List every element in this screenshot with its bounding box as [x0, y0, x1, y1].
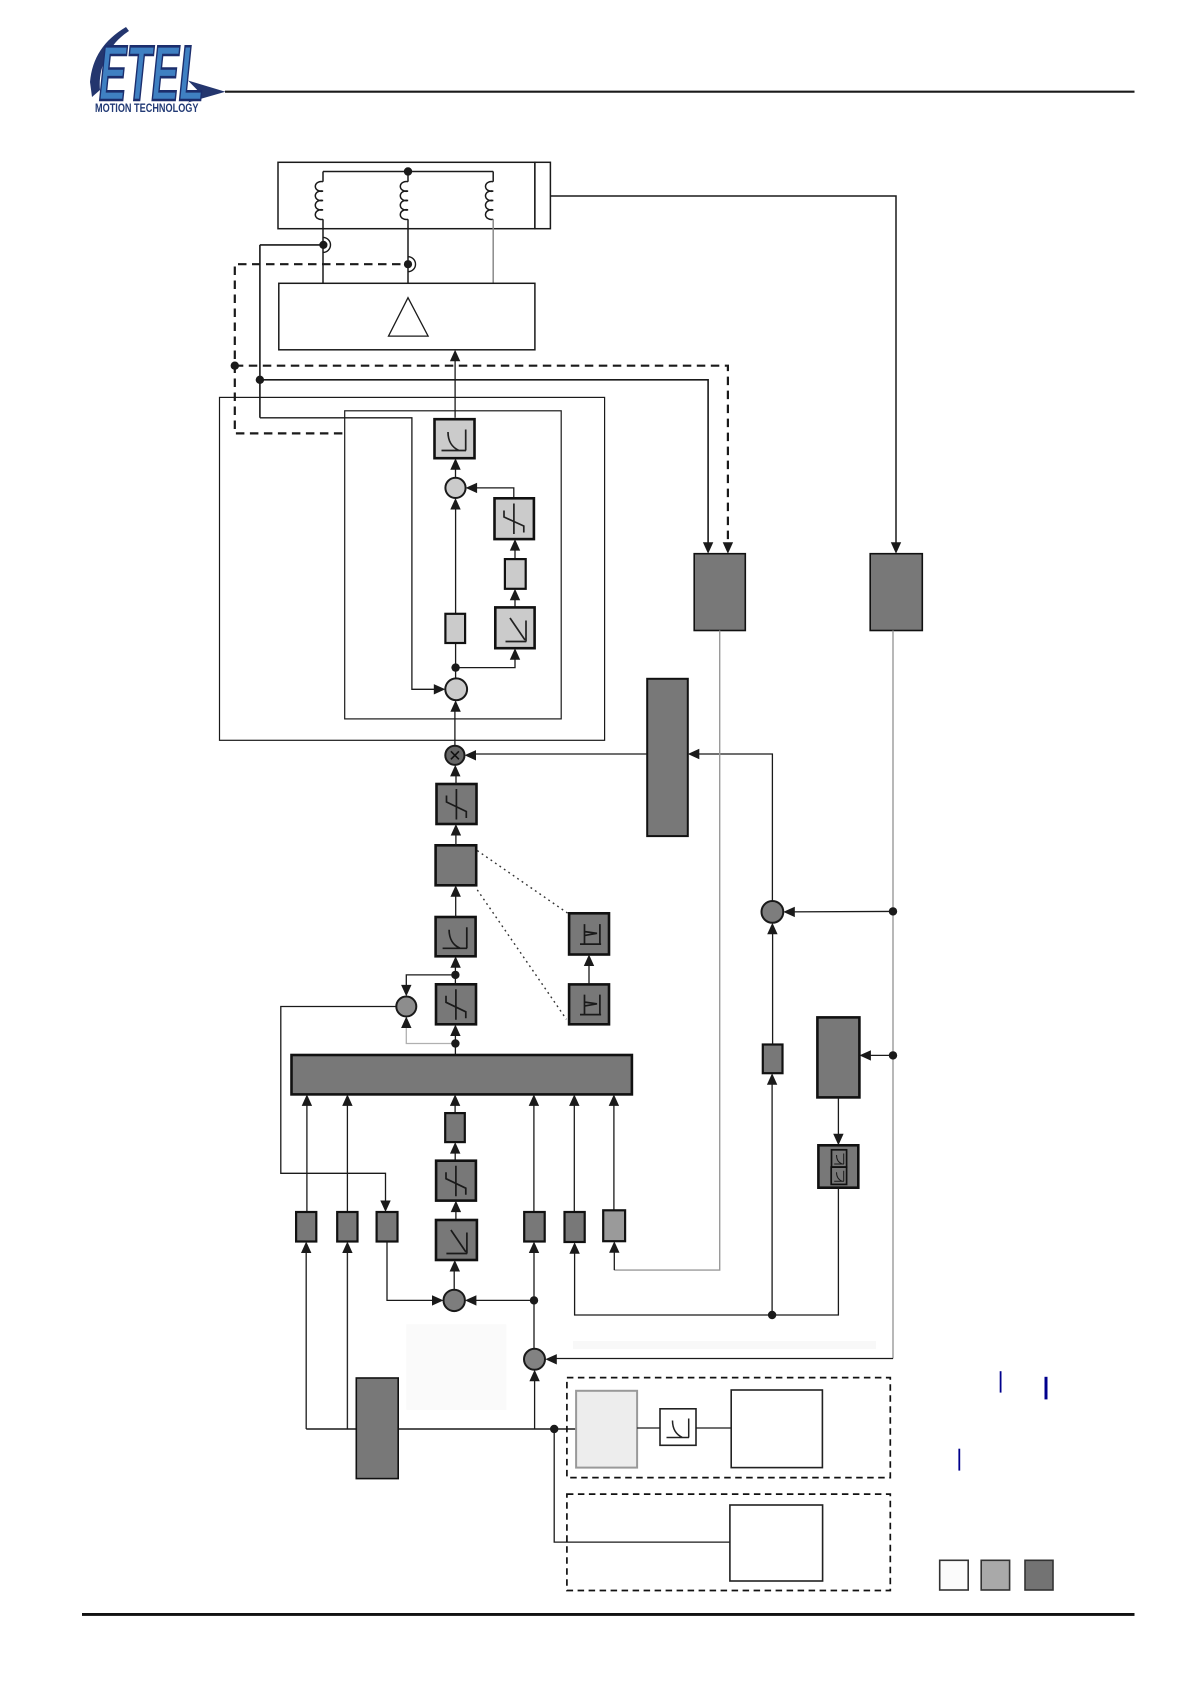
coil L3	[486, 172, 494, 220]
wire filter to scaling	[455, 890, 457, 917]
dotted link lower	[477, 890, 566, 1019]
ADC block DC bus	[870, 554, 922, 631]
wire S1 measured current to ADC	[260, 380, 708, 548]
node filter branch	[768, 1311, 776, 1319]
wire sensor S2 dashed feedback	[235, 264, 401, 433]
wire reg5 to bar	[573, 1099, 575, 1212]
wire reg1 to bar	[306, 1099, 308, 1212]
feedback combine circle	[524, 1349, 545, 1370]
star-point bus wire	[323, 171, 493, 173]
wire right sum to commutation	[693, 754, 773, 901]
power amplifier	[279, 283, 535, 350]
wire bar to sat2	[454, 1029, 456, 1055]
node position feedback	[530, 1296, 538, 1304]
node S1 branch	[256, 376, 264, 384]
wire PWM into amplifier	[454, 355, 456, 418]
current controller outer box	[220, 397, 605, 740]
register block 4	[524, 1212, 545, 1242]
motor housing	[278, 162, 535, 228]
wire scaling to saturation	[455, 829, 457, 846]
wire observer to filters	[837, 1097, 839, 1141]
wire motor to converter block	[550, 196, 896, 548]
wire branch down to speed sum	[406, 975, 455, 992]
current sensor S2	[408, 257, 416, 272]
wire sat3 to gain	[454, 1147, 456, 1161]
wire step lower to upper	[588, 959, 590, 984]
wire filter to counter	[696, 1427, 731, 1429]
wire S1 feedback into current loop	[260, 418, 441, 690]
wire reg2 riser	[346, 1246, 348, 1429]
faint band	[573, 1341, 876, 1349]
summing node right	[762, 901, 784, 923]
wire branch to right sum	[788, 910, 893, 913]
gain block current loop	[505, 559, 526, 589]
commutation block	[647, 679, 688, 836]
counter block	[731, 1390, 822, 1468]
wire integrator to gain	[514, 593, 516, 607]
wire sensor S1 feedback	[260, 244, 324, 246]
small block under right sum	[763, 1045, 783, 1074]
coil L2	[400, 172, 408, 284]
wire reg4 to bar	[533, 1099, 535, 1212]
parameter bar	[292, 1055, 632, 1094]
position sensor block	[356, 1378, 398, 1479]
wire small block to right sum	[772, 928, 774, 1045]
wire feedback node to position sum	[470, 1299, 535, 1301]
ADC block phase currents	[694, 554, 745, 631]
wire branch to observer	[864, 1054, 893, 1056]
wire reg6 to bar	[613, 1099, 615, 1212]
register block 2	[337, 1212, 357, 1242]
saturation block S3	[436, 1161, 476, 1201]
light panel	[406, 1324, 506, 1410]
ETEL logo	[90, 27, 225, 117]
wire S2 measured current to ADC dashed	[235, 366, 728, 546]
node filter input branch	[451, 971, 459, 979]
node ADC2 branch lower	[889, 1051, 897, 1059]
encoder filter box	[660, 1409, 696, 1446]
node current loop branch	[451, 663, 459, 671]
wire pos sum to integrator2	[453, 1265, 455, 1290]
dotted link upper	[477, 851, 568, 914]
summing node position	[444, 1290, 465, 1311]
node bar output	[451, 1039, 459, 1047]
scaling block	[436, 845, 477, 885]
footer rule	[82, 1613, 1135, 1616]
wire gain to saturation	[514, 544, 516, 560]
blue mark 1	[1000, 1371, 1002, 1392]
aux counter block	[730, 1505, 823, 1581]
node star point	[404, 167, 412, 175]
current controller inner box	[345, 411, 562, 719]
register block 5	[565, 1212, 585, 1242]
wire sum to PWM filter	[455, 463, 457, 478]
summing node current loop	[445, 478, 465, 498]
coil L1	[315, 172, 323, 284]
register block 3	[377, 1212, 398, 1242]
wire encoder horizontal	[306, 1428, 576, 1430]
step response block upper	[569, 913, 609, 954]
legend swatch mid	[981, 1560, 1009, 1590]
wire chain to bar	[454, 1099, 456, 1113]
wire node below sat2 up to speed sum	[406, 1021, 455, 1044]
gain block chain	[445, 1113, 465, 1142]
wire ADC2 down	[892, 631, 894, 1359]
blue mark 3	[958, 1449, 960, 1471]
wire integrator2 to sat3	[455, 1205, 457, 1220]
node S2 branch	[231, 362, 239, 370]
blue mark 2	[1045, 1377, 1048, 1400]
wire commutation to multiplier	[469, 753, 647, 755]
wire encoder block to filter	[637, 1427, 660, 1429]
filter block dark	[436, 917, 476, 956]
current sensor S1	[323, 237, 331, 252]
saturation block S2 dark	[436, 984, 476, 1024]
wire branch up to small block	[771, 1078, 773, 1316]
wire sat2 to filter	[454, 961, 456, 984]
wire phase3 to amplifier	[492, 219, 494, 283]
wire saturation to multiplier	[455, 770, 457, 785]
summing node speed	[396, 997, 416, 1017]
encoder input block	[576, 1391, 637, 1468]
legend swatch light	[940, 1560, 969, 1590]
PWM filter block	[435, 419, 475, 458]
header rule	[225, 91, 1135, 93]
saturation block S1 dark	[437, 784, 477, 824]
multiplier node	[445, 746, 464, 765]
double filter block	[818, 1145, 858, 1187]
summing node current error	[445, 678, 467, 700]
step response block lower	[569, 984, 609, 1024]
svg-text:MOTION TECHNOLOGY: MOTION TECHNOLOGY	[95, 101, 199, 115]
wire sum2 up to sum1	[455, 503, 457, 679]
wire reg3 to position sum	[387, 1242, 439, 1301]
node ADC2 branch upper	[889, 907, 897, 915]
encoder dashed box 2	[567, 1494, 890, 1590]
wire reg2 to bar	[346, 1099, 348, 1212]
wire speed sum output loop	[281, 1007, 397, 1208]
block on current loop line	[445, 614, 465, 643]
motor terminal box	[535, 162, 551, 228]
encoder dashed box 1	[567, 1378, 890, 1478]
register block 1	[296, 1212, 316, 1242]
integrator block current loop	[495, 607, 534, 648]
wire encoder to box2	[554, 1429, 730, 1542]
wire ADC1 down	[614, 631, 719, 1271]
legend swatch dark	[1025, 1560, 1053, 1590]
wire double filter output	[575, 1188, 839, 1315]
wire feedback circle to reg4	[533, 1246, 535, 1349]
wire reg1 riser	[305, 1246, 307, 1429]
wire saturation branch to sum	[470, 488, 514, 498]
register block 6	[603, 1210, 625, 1241]
saturation block current loop	[495, 498, 534, 539]
observer block	[817, 1017, 859, 1097]
wire branch to integrator	[456, 653, 515, 668]
node encoder branch down	[550, 1425, 558, 1433]
wire encoder line to combine circle	[534, 1375, 536, 1430]
integrator block 2	[436, 1220, 477, 1260]
wire multiplier to sum2	[454, 705, 456, 746]
